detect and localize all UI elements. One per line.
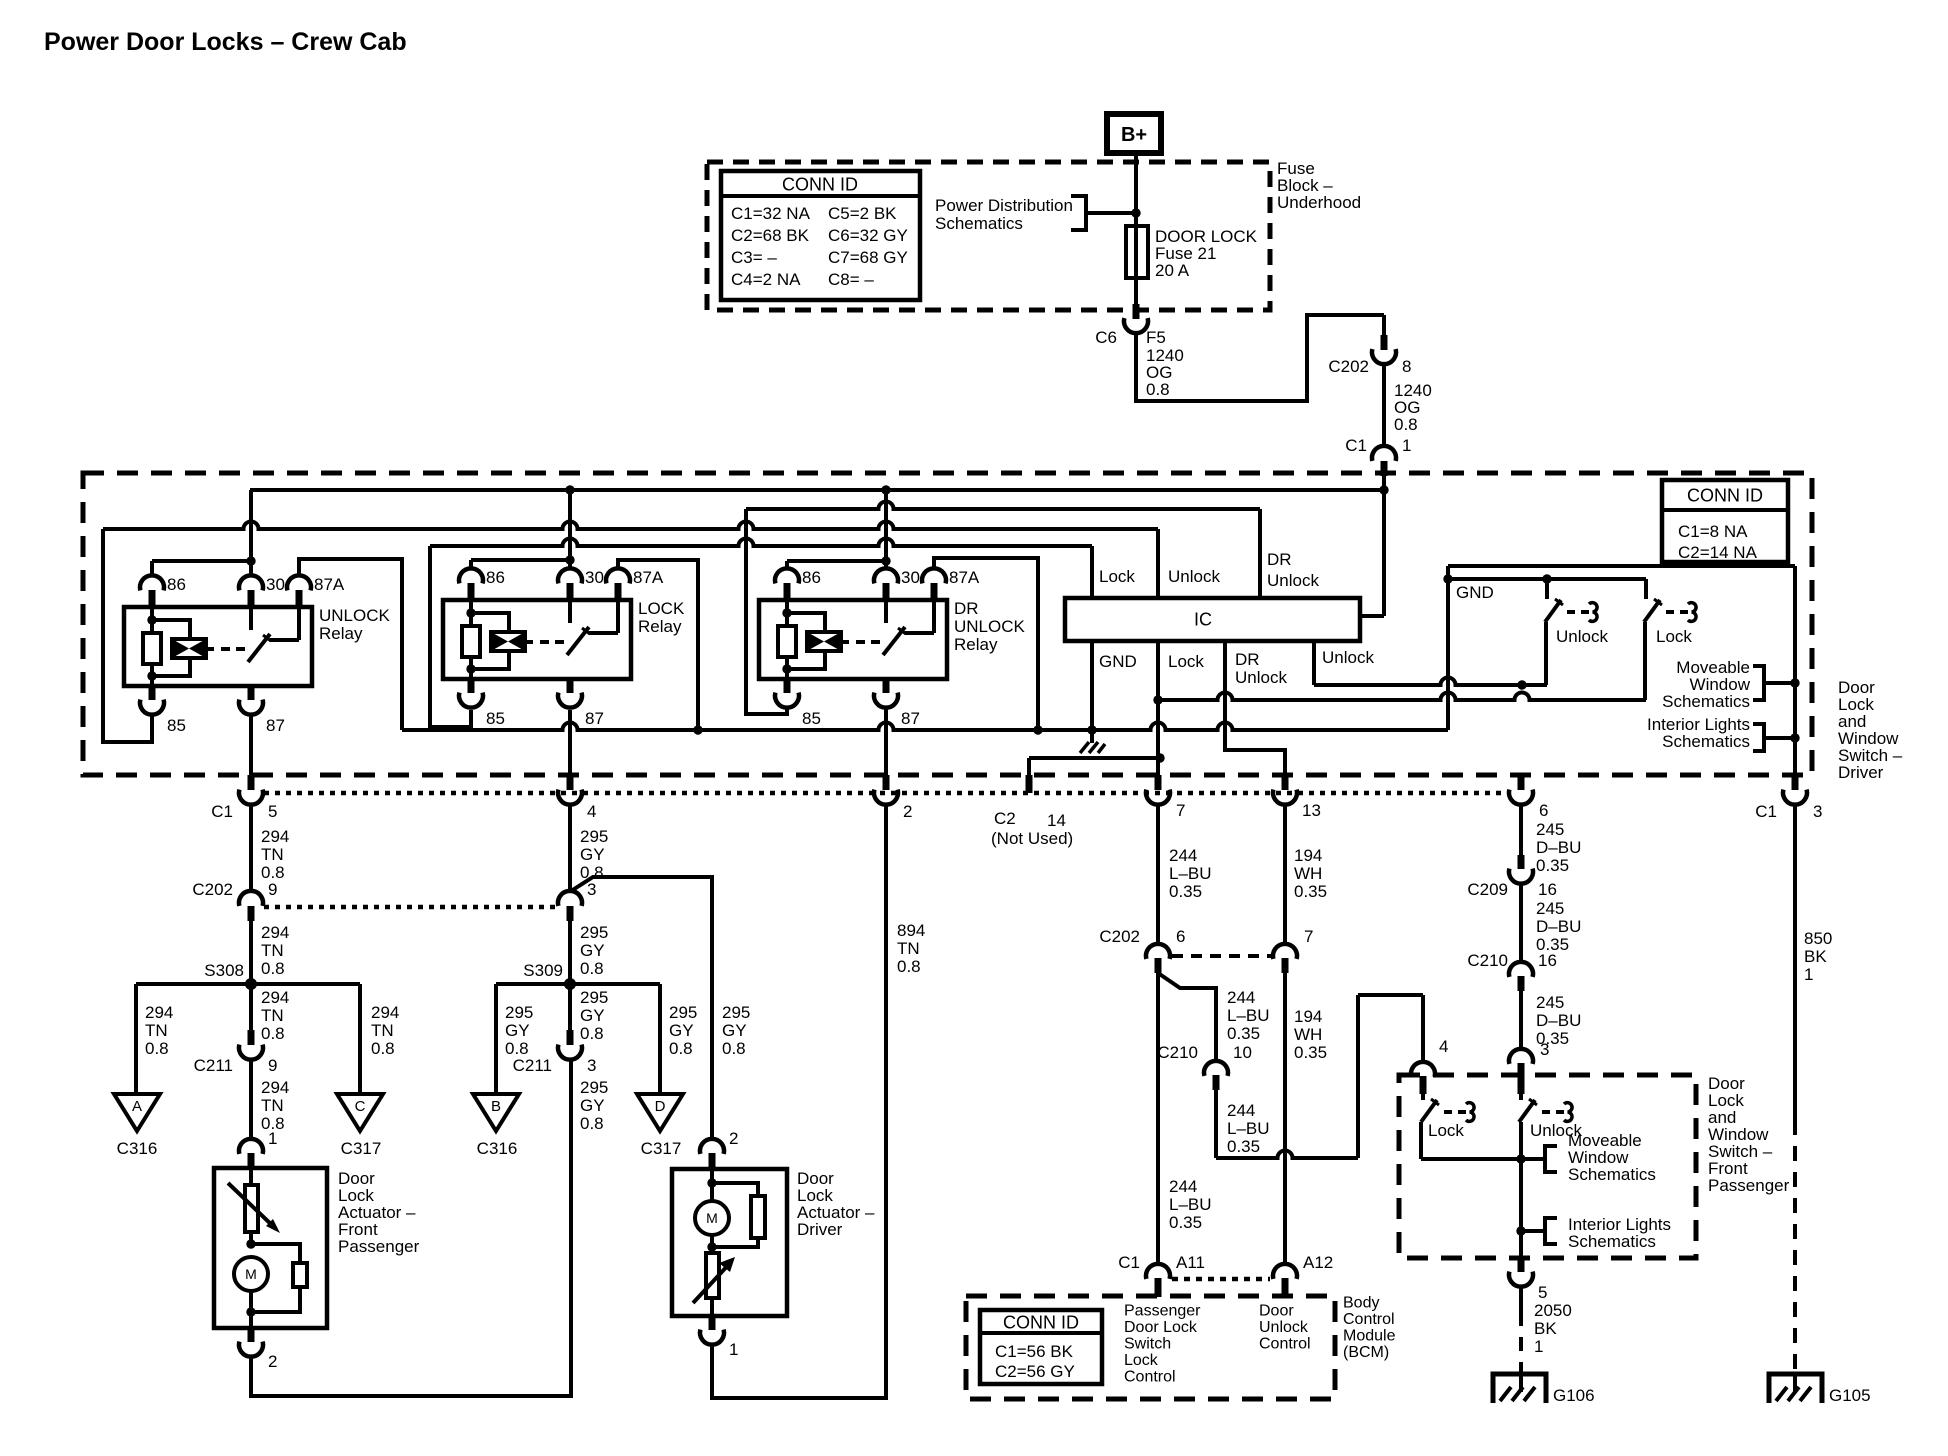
relay switch common from pin 30 — [884, 600, 888, 623]
svg-text:TN: TN — [261, 1006, 284, 1025]
Door Lock Actuator - Front Passenger box — [214, 1168, 327, 1328]
svg-text:30: 30 — [266, 575, 285, 594]
relay switch 87A contact path — [270, 607, 299, 640]
connector C1 pin 2 — [874, 775, 898, 805]
svg-text:1: 1 — [268, 1129, 277, 1148]
wire passenger lock switch to unlock node — [1421, 1157, 1521, 1161]
svg-text:Module: Module — [1343, 1328, 1396, 1345]
mechanical link dashes coil to contacts — [221, 647, 245, 651]
bracket moveable window schematics — [1753, 666, 1795, 700]
junction driver motor bottom — [707, 1234, 716, 1253]
svg-text:L–BU: L–BU — [1169, 864, 1212, 883]
connector C1 pin 6 — [1509, 775, 1533, 805]
relay pin 87 connector — [558, 679, 582, 708]
svg-text:0.8: 0.8 — [580, 1024, 604, 1043]
svg-text:GY: GY — [580, 941, 605, 960]
svg-text:1: 1 — [729, 1340, 738, 1359]
relay coil winding — [471, 613, 533, 669]
svg-text:295: 295 — [505, 1003, 533, 1022]
connector dashes C202 6 to 7 — [1172, 954, 1271, 958]
svg-text:L–BU: L–BU — [1169, 1195, 1212, 1214]
svg-text:GND: GND — [1456, 583, 1494, 602]
svg-text:6: 6 — [1539, 801, 1548, 820]
wire C211-9 down to actuator pin 1 — [249, 1060, 253, 1140]
svg-text:CONN ID: CONN ID — [1003, 1312, 1079, 1332]
svg-text:C202: C202 — [1328, 357, 1369, 376]
wire pin6 down to C209 — [1519, 805, 1523, 856]
Door Lock and Window Switch - Driver dashed module box — [83, 473, 1812, 775]
junction IC Lock to driver lock switch line — [1153, 695, 1162, 704]
connector C202 pin 3 — [558, 891, 582, 921]
wire S309 right branch to connector D — [658, 984, 662, 1094]
svg-text:3: 3 — [1540, 1040, 1549, 1059]
wire relay2 85 return loop to bus — [430, 546, 471, 727]
svg-text:0.8: 0.8 — [261, 959, 285, 978]
svg-text:Driver: Driver — [797, 1220, 843, 1239]
wire IC Unlock line to driver unlock switch — [1314, 678, 1547, 686]
svg-text:245: 245 — [1536, 899, 1564, 918]
wire S309 down to C211 pin 3 — [568, 984, 572, 1030]
fuse block CONN ID table — [721, 171, 920, 300]
connector C2 pin 14 not used — [1029, 758, 1160, 793]
svg-text:S308: S308 — [204, 961, 244, 980]
svg-text:9: 9 — [268, 880, 277, 899]
svg-text:GY: GY — [505, 1021, 530, 1040]
wire C1-1 into module to supply bus — [1382, 476, 1386, 491]
wire pin7 down to C202 pin 6 — [1156, 805, 1160, 945]
wire C6 to C202 pin 8 — [1136, 315, 1384, 401]
actuator internal resistor front passenger — [251, 1244, 307, 1312]
wire IC GND pin down — [1090, 641, 1094, 730]
svg-text:DR: DR — [1267, 550, 1292, 569]
junction interior lights tap — [1790, 733, 1799, 742]
net relay3 coil 85 to IC DR Unlock: bus wire — [746, 502, 1260, 599]
destination triangle A to C316 — [114, 1094, 160, 1131]
svg-text:TN: TN — [897, 939, 920, 958]
IC block of door switch module — [1065, 598, 1360, 641]
svg-text:C2=68 BK: C2=68 BK — [731, 226, 810, 245]
svg-text:894: 894 — [897, 921, 925, 940]
svg-text:TN: TN — [261, 1096, 284, 1115]
svg-text:Schematics: Schematics — [935, 214, 1023, 233]
svg-text:Power Distribution: Power Distribution — [935, 196, 1073, 215]
bracket interior lights schematics — [1753, 724, 1795, 751]
svg-text:C210: C210 — [1157, 1043, 1198, 1062]
relay switch movable blade — [883, 627, 906, 655]
svg-text:0.8: 0.8 — [722, 1039, 746, 1058]
connector passenger switch pin 5 — [1509, 1258, 1533, 1287]
svg-text:UNLOCK: UNLOCK — [319, 606, 391, 625]
junction moveable window tap — [1790, 678, 1799, 687]
svg-text:Relay: Relay — [319, 624, 363, 643]
svg-text:Unlock: Unlock — [1168, 567, 1220, 586]
svg-text:C317: C317 — [341, 1139, 382, 1158]
svg-text:0.35: 0.35 — [1169, 882, 1202, 901]
svg-text:S309: S309 — [523, 961, 563, 980]
wire branch C202-6 to C210 pin 10 — [1158, 973, 1216, 1061]
connector C210 pin 16 — [1509, 962, 1533, 991]
svg-text:0.8: 0.8 — [1394, 415, 1418, 434]
wire relay1 85 return loop to bus — [103, 529, 152, 742]
wire relay3 87A loop to ground rail — [934, 558, 1038, 730]
svg-text:Power Door Locks – Crew Cab: Power Door Locks – Crew Cab — [44, 28, 407, 56]
junction ground bus left — [1443, 574, 1452, 583]
svg-text:L–BU: L–BU — [1227, 1119, 1270, 1138]
relay name label LOCK Relay — [638, 599, 685, 636]
junction driver motor top — [707, 1169, 716, 1202]
wire S308 branch line — [136, 982, 360, 986]
svg-text:Unlock: Unlock — [1235, 668, 1287, 687]
junction bus to IC feed — [1379, 485, 1388, 494]
connector C202 pin 6 — [1146, 944, 1170, 973]
svg-text:D–BU: D–BU — [1536, 917, 1581, 936]
ground G105 — [1769, 1374, 1822, 1403]
junction passenger switches common — [1516, 1154, 1525, 1163]
connector C202 pin 8 — [1372, 315, 1396, 364]
connector C1 pin 7 — [1146, 775, 1170, 805]
switch Lock driver — [1644, 579, 1696, 700]
relay coil suppression resistor — [143, 607, 161, 686]
svg-text:C1=8 NA: C1=8 NA — [1678, 522, 1748, 541]
svg-text:14: 14 — [1047, 811, 1066, 830]
svg-text:244: 244 — [1169, 1177, 1197, 1196]
svg-text:87: 87 — [585, 709, 604, 728]
svg-text:Unlock: Unlock — [1259, 1319, 1309, 1336]
svg-text:4: 4 — [1439, 1037, 1448, 1056]
svg-text:86: 86 — [486, 568, 505, 587]
connector C1 pin 5 — [239, 775, 263, 805]
svg-text:C1=56 BK: C1=56 BK — [995, 1342, 1074, 1361]
svg-text:A: A — [132, 1098, 142, 1115]
svg-text:295: 295 — [669, 1003, 697, 1022]
connector actuator driver pin 1 — [700, 1316, 724, 1345]
Fuse Block - Underhood dashed box — [707, 162, 1270, 310]
svg-text:294: 294 — [261, 1078, 289, 1097]
svg-text:Lock: Lock — [1099, 567, 1135, 586]
wire S309 left branch to connector B — [494, 984, 498, 1094]
wire relay1 30 up to supply bus — [249, 490, 253, 576]
wire pin4 down to C202 pin 3 — [568, 805, 572, 892]
svg-text:C3= –: C3= – — [731, 248, 777, 267]
svg-text:GY: GY — [580, 1006, 605, 1025]
svg-text:1: 1 — [1534, 1337, 1543, 1356]
svg-text:1: 1 — [1402, 436, 1411, 455]
relay switch movable blade — [567, 627, 590, 655]
wire relay1 86 up and over to pin30 node — [152, 561, 251, 576]
svg-text:3: 3 — [587, 880, 596, 899]
svg-text:0.35: 0.35 — [1294, 1043, 1327, 1062]
svg-text:30: 30 — [901, 568, 920, 587]
svg-text:3: 3 — [1813, 802, 1822, 821]
connector C1 pin 3 — [1783, 775, 1807, 805]
svg-text:Unlock: Unlock — [1267, 571, 1319, 590]
net relay1 coil 85 to IC Unlock: bus wire — [103, 522, 1158, 598]
svg-text:BK: BK — [1804, 947, 1827, 966]
svg-text:WH: WH — [1294, 1025, 1322, 1044]
svg-text:Underhood: Underhood — [1277, 193, 1361, 212]
junction relay1 86/30 — [246, 556, 255, 565]
supply bus wire B+ feed — [250, 488, 1384, 492]
svg-text:5: 5 — [1538, 1283, 1547, 1302]
wire common down to interior lights tap — [1519, 1159, 1523, 1231]
svg-text:8: 8 — [1402, 357, 1411, 376]
relay pin 85 connector — [459, 679, 483, 708]
svg-text:850: 850 — [1804, 929, 1832, 948]
wire relay3 86 up and over to pin30 node — [787, 561, 886, 569]
svg-text:85: 85 — [486, 709, 505, 728]
ground G106 — [1493, 1374, 1546, 1403]
svg-text:7: 7 — [1304, 927, 1313, 946]
svg-text:GY: GY — [580, 845, 605, 864]
svg-text:295: 295 — [580, 1078, 608, 1097]
svg-text:194: 194 — [1294, 1007, 1322, 1026]
svg-text:DR: DR — [954, 599, 979, 618]
destination triangle B to C316 — [473, 1094, 519, 1131]
svg-text:(Not Used): (Not Used) — [991, 829, 1073, 848]
connector C1 pin 1 into door switch module — [1372, 446, 1396, 476]
wire relay1 87 down to connector C1 pin 5 — [249, 715, 253, 775]
wire pin13 down to C202 pin 7 — [1283, 805, 1287, 945]
svg-text:85: 85 — [802, 709, 821, 728]
svg-text:294: 294 — [145, 1003, 173, 1022]
junction actuator motor top — [246, 1239, 255, 1248]
svg-text:C317: C317 — [641, 1139, 682, 1158]
actuator internal resistor driver — [712, 1183, 765, 1247]
svg-text:(BCM): (BCM) — [1343, 1344, 1389, 1361]
wire relay3 85 return loop to bus — [746, 509, 787, 714]
svg-text:M: M — [245, 1266, 257, 1282]
connector C210 pin 10 — [1204, 1061, 1228, 1090]
wire IC Unlock output down — [1312, 641, 1316, 685]
junction coil bottom — [147, 671, 156, 680]
relay pin 87 connector — [874, 679, 898, 708]
svg-text:CONN ID: CONN ID — [1687, 485, 1763, 505]
connector C1 pin 13 — [1273, 775, 1297, 805]
svg-text:Passenger: Passenger — [1124, 1303, 1201, 1320]
svg-text:C: C — [355, 1098, 366, 1115]
Door Lock and Window Switch - Front Passenger dashed box — [1399, 1075, 1696, 1258]
svg-text:LOCK: LOCK — [638, 599, 685, 618]
connector face dotted line C202 — [264, 905, 559, 910]
svg-text:16: 16 — [1538, 951, 1557, 970]
driver switch ground bus — [1448, 566, 1795, 579]
svg-text:0.35: 0.35 — [1536, 856, 1569, 875]
svg-text:30: 30 — [585, 568, 604, 587]
connector C211 pin 3 — [558, 1030, 582, 1060]
junction bus to relay2 30 — [565, 485, 574, 494]
svg-text:245: 245 — [1536, 993, 1564, 1012]
connector passenger switch pin 3 — [1509, 1049, 1533, 1094]
wire C202-3 down to splice S309 — [568, 921, 572, 984]
connector actuator front passenger pin 2 — [239, 1312, 263, 1357]
position sensor variable resistor front passenger — [228, 1168, 280, 1244]
svg-text:D: D — [655, 1098, 666, 1115]
chassis ground hatching at IC GND — [1080, 730, 1105, 753]
wire S308 left branch to connector A — [134, 984, 138, 1094]
svg-text:Passenger: Passenger — [338, 1237, 420, 1256]
relay pin 86 connector — [775, 568, 799, 600]
wire IC DR Unlock output down to pin 13 — [1225, 641, 1285, 775]
svg-text:2050: 2050 — [1534, 1301, 1572, 1320]
mechanical link dashes coil to contacts — [856, 640, 880, 644]
relay switch 87A contact path — [905, 600, 934, 633]
relay coil suppression resistor — [778, 600, 796, 679]
svg-text:C2: C2 — [994, 809, 1016, 828]
svg-text:BK: BK — [1534, 1319, 1557, 1338]
svg-text:Lock: Lock — [1124, 1352, 1159, 1369]
svg-text:244: 244 — [1169, 846, 1197, 865]
wire fuse to connector C6 — [1134, 278, 1138, 304]
svg-text:D–BU: D–BU — [1536, 838, 1581, 857]
svg-text:C4=2 NA: C4=2 NA — [731, 270, 801, 289]
relay pin 87 connector — [239, 686, 263, 715]
relay body box LOCK — [443, 600, 631, 679]
svg-text:0.8: 0.8 — [261, 1024, 285, 1043]
wire actuator pin2 return to C211 pin 3 — [251, 1060, 571, 1397]
svg-text:87A: 87A — [633, 568, 664, 587]
svg-text:Switch: Switch — [1124, 1336, 1171, 1353]
connector actuator driver pin 2 — [700, 1139, 724, 1169]
svg-text:295: 295 — [580, 988, 608, 1007]
svg-text:86: 86 — [167, 575, 186, 594]
svg-text:294: 294 — [261, 827, 289, 846]
svg-text:2: 2 — [729, 1129, 738, 1148]
wire relay2 87 down to connector C1 pin 4 — [568, 710, 572, 775]
relay pin 30 connector — [874, 568, 898, 600]
svg-text:295: 295 — [580, 827, 608, 846]
wire pin13 circuit down to BCM A12 — [1283, 973, 1287, 1264]
relay coil winding — [152, 620, 214, 676]
svg-text:2: 2 — [903, 802, 912, 821]
wire branch C202-3 to driver actuator — [571, 877, 712, 1139]
svg-text:C6=32 GY: C6=32 GY — [828, 226, 908, 245]
wire pin5 to ground G106 — [1519, 1287, 1523, 1375]
wire S309 branch line — [496, 982, 660, 986]
svg-text:0.8: 0.8 — [1146, 380, 1170, 399]
svg-text:C8= –: C8= – — [828, 270, 874, 289]
svg-text:A12: A12 — [1303, 1253, 1333, 1272]
svg-text:C209: C209 — [1467, 880, 1508, 899]
wire relay1 87A loop to ground rail — [299, 559, 402, 730]
connector C1 pin 4 — [558, 775, 582, 805]
wire common down to connector pin 5 — [1519, 1231, 1523, 1258]
wire C1-1 feed down to IC — [1358, 490, 1384, 616]
switch Unlock driver — [1545, 579, 1597, 685]
svg-text:Relay: Relay — [954, 635, 998, 654]
svg-text:C1: C1 — [211, 802, 233, 821]
svg-text:0.35: 0.35 — [1227, 1024, 1260, 1043]
switch Unlock passenger — [1519, 1094, 1572, 1159]
svg-text:Passenger: Passenger — [1708, 1176, 1790, 1195]
svg-text:0.35: 0.35 — [1227, 1137, 1260, 1156]
svg-text:C2=14 NA: C2=14 NA — [1678, 543, 1758, 562]
svg-text:Unlock: Unlock — [1556, 627, 1608, 646]
destination triangle C to C317 — [337, 1094, 383, 1131]
svg-text:Control: Control — [1343, 1311, 1395, 1328]
svg-text:C210: C210 — [1467, 951, 1508, 970]
fuse F21 DOOR LOCK 20A — [1126, 226, 1148, 278]
svg-text:GY: GY — [722, 1021, 747, 1040]
junction coil bottom — [782, 664, 791, 673]
svg-text:C1=32 NA: C1=32 NA — [731, 204, 811, 223]
svg-text:C211: C211 — [194, 1056, 233, 1075]
svg-text:DR: DR — [1235, 650, 1260, 669]
svg-text:GY: GY — [669, 1021, 694, 1040]
svg-text:UNLOCK: UNLOCK — [954, 617, 1026, 636]
svg-text:Control: Control — [1259, 1336, 1311, 1353]
connector C209 pin 16 — [1509, 855, 1533, 884]
Door Lock Actuator - Driver box — [672, 1169, 787, 1316]
svg-text:CONN ID: CONN ID — [782, 174, 858, 194]
wire S308 down to C211 pin 9 — [249, 984, 253, 1030]
junction relay2 87A at ground rail — [693, 725, 702, 734]
relay switch 87A contact path — [589, 600, 618, 633]
svg-text:GND: GND — [1099, 652, 1137, 671]
svg-text:B: B — [491, 1098, 501, 1115]
svg-text:245: 245 — [1536, 820, 1564, 839]
bracket moveable window schematics passenger — [1521, 1146, 1557, 1172]
svg-text:10: 10 — [1233, 1043, 1252, 1062]
relay pin 30 connector — [558, 568, 582, 600]
svg-text:294: 294 — [261, 923, 289, 942]
connector C202 pin 7 — [1273, 944, 1297, 973]
switch Lock passenger — [1421, 1094, 1474, 1159]
relay switch common from pin 30 — [249, 607, 253, 630]
wire C209 to C210 — [1519, 884, 1523, 963]
junction interior lights tap passenger — [1516, 1226, 1525, 1235]
connector C202 pin 9 — [239, 891, 263, 921]
svg-text:85: 85 — [167, 716, 186, 735]
svg-text:Schematics: Schematics — [1662, 732, 1750, 751]
net relay2 coil 85 to IC Lock: bus wire — [430, 539, 1092, 599]
wire relay2 30 up to supply bus — [568, 490, 572, 569]
wire lock line to driver lock switch — [1158, 693, 1646, 701]
junction coil top — [466, 608, 475, 617]
bracket from Power Distribution Schematics to wire — [1071, 196, 1136, 230]
svg-text:Schematics: Schematics — [1568, 1232, 1656, 1251]
svg-text:TN: TN — [261, 941, 284, 960]
svg-text:M: M — [706, 1210, 718, 1226]
svg-text:C211: C211 — [513, 1056, 552, 1075]
svg-text:B+: B+ — [1121, 124, 1147, 146]
svg-text:C7=68 GY: C7=68 GY — [828, 248, 908, 267]
svg-text:L–BU: L–BU — [1227, 1006, 1270, 1025]
svg-text:0.8: 0.8 — [897, 957, 921, 976]
svg-text:C316: C316 — [117, 1139, 158, 1158]
svg-text:C1: C1 — [1755, 802, 1777, 821]
wire C202-8 down to C1 pin 1 — [1382, 364, 1386, 446]
mechanical link dashes coil to contacts — [540, 640, 564, 644]
svg-text:87A: 87A — [949, 568, 980, 587]
svg-text:244: 244 — [1227, 1101, 1255, 1120]
relay name label DR UNLOCK Relay — [954, 599, 1026, 654]
connector face dots A11 to A12 — [1172, 1277, 1270, 1282]
svg-text:G106: G106 — [1553, 1386, 1595, 1405]
svg-text:C202: C202 — [192, 880, 233, 899]
relay switch common from pin 30 — [568, 600, 572, 623]
relay body box UNLOCK — [124, 607, 312, 686]
splice S308 — [245, 978, 257, 990]
svg-text:C1: C1 — [1118, 1253, 1140, 1272]
svg-text:TN: TN — [261, 845, 284, 864]
svg-text:TN: TN — [371, 1021, 394, 1040]
svg-text:20 A: 20 A — [1155, 261, 1190, 280]
svg-text:7: 7 — [1176, 801, 1185, 820]
svg-text:0.8: 0.8 — [669, 1039, 693, 1058]
junction relay3 87A at ground rail — [1033, 725, 1042, 734]
wire B+ down to fuse — [1134, 153, 1138, 226]
wire S308 right branch to connector C — [358, 984, 362, 1094]
